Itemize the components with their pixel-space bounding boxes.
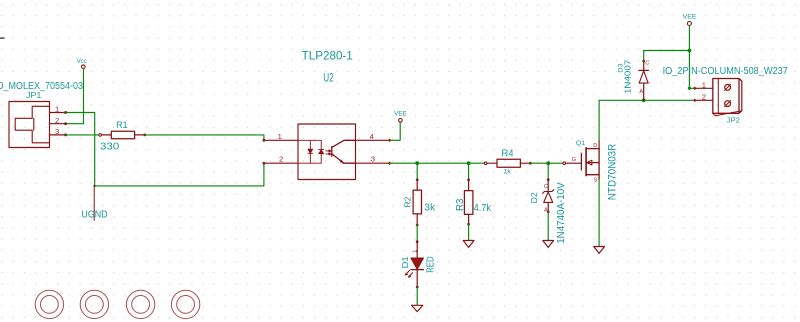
resistor R1: [99, 131, 146, 139]
mounting hole MH2: [80, 290, 108, 318]
ground below Q1: [594, 247, 605, 254]
svg-text:Vcc: Vcc: [77, 59, 87, 65]
optocoupler U2: [264, 124, 390, 180]
mounting hole MH1: [35, 290, 63, 318]
svg-text:3: 3: [371, 155, 375, 164]
svg-text:R2: R2: [402, 196, 412, 207]
junction UGND attach: [93, 185, 95, 187]
junction R3: [467, 161, 471, 165]
wire to D2: [547, 163, 549, 179]
svg-text:2: 2: [55, 116, 59, 125]
wire D1 to ground: [416, 287, 418, 305]
svg-text:D2: D2: [530, 192, 539, 203]
ground below D1: [412, 305, 423, 311]
svg-text:1k: 1k: [503, 169, 511, 176]
wire JP1 pin 3 to R1: [66, 134, 99, 136]
pin 2 line: [264, 162, 298, 164]
junction D2: [546, 161, 550, 165]
wire R1 to U2 pin 1: [145, 135, 264, 140]
svg-text:TLP280-1: TLP280-1: [302, 50, 353, 63]
svg-text:1: 1: [55, 105, 59, 114]
svg-text:3: 3: [55, 127, 59, 136]
wire U2 pin 4 to VEE: [390, 123, 401, 141]
wire main net U2 pin 3 to R4: [390, 162, 485, 164]
pin 4 line: [356, 139, 390, 141]
svg-text:C: C: [645, 61, 649, 67]
resistor R2: [413, 178, 421, 226]
light arrows: [326, 150, 330, 152]
svg-text:C: C: [544, 184, 548, 190]
wire to R3: [468, 163, 470, 180]
pin end dots U2: [262, 139, 265, 165]
svg-text:UGND: UGND: [81, 209, 107, 220]
svg-text:O_MOLEX_70554-03: O_MOLEX_70554-03: [0, 81, 84, 92]
mounting hole MH4: [171, 290, 199, 318]
connector JP2: [695, 79, 742, 116]
svg-text:2: 2: [702, 92, 706, 101]
junction D3 anode: [642, 98, 646, 102]
wire Vcc stem to JP1 pin 2: [66, 68, 84, 123]
wire R3 to ground: [468, 224, 470, 240]
ground below R3: [463, 241, 474, 248]
svg-text:JP1: JP1: [26, 90, 42, 100]
svg-text:U2: U2: [323, 71, 334, 85]
phototransistor: [332, 140, 356, 163]
pin end diamonds U2: [388, 139, 392, 166]
svg-text:330: 330: [100, 141, 119, 152]
svg-text:JP2: JP2: [727, 115, 740, 124]
svg-text:1N4740A-10V: 1N4740A-10V: [556, 182, 567, 244]
junction R2: [415, 161, 419, 165]
emission arrows: [405, 270, 413, 278]
svg-text:D1: D1: [401, 256, 410, 269]
zener diode D2: [543, 178, 554, 213]
wire Q1 drain to JP2 pin 2: [599, 100, 695, 140]
wire Q1 source to ground: [598, 179, 600, 246]
junction VEE to D3 branch: [688, 49, 692, 53]
svg-text:1N4007: 1N4007: [623, 60, 633, 94]
wire to R2: [416, 163, 418, 180]
svg-text:R1: R1: [116, 120, 128, 130]
svg-text:Q1: Q1: [576, 140, 586, 147]
svg-text:VEE: VEE: [683, 14, 697, 21]
pin 1 line: [264, 139, 298, 141]
diode D3: [639, 60, 649, 101]
svg-text:A: A: [639, 89, 643, 95]
net label line UGND: [93, 186, 95, 221]
svg-text:3k: 3k: [424, 202, 435, 213]
svg-text:A: A: [544, 208, 548, 214]
svg-text:2: 2: [279, 155, 283, 164]
LED D1: [405, 240, 424, 288]
svg-text:S: S: [594, 178, 598, 184]
stray mark left edge: [0, 37, 5, 39]
svg-text:1: 1: [278, 132, 282, 141]
mounting hole MH3: [126, 290, 154, 318]
wire JP1 pin 1 to UGND net and U2 pin 2: [66, 113, 264, 186]
svg-text:G: G: [572, 157, 576, 163]
wire D2 to ground: [547, 212, 549, 241]
svg-text:1: 1: [413, 250, 419, 253]
svg-text:4.7k: 4.7k: [474, 203, 492, 214]
svg-text:RED: RED: [425, 256, 436, 272]
junction JP2 pin1: [688, 87, 691, 90]
power symbol Vcc: [82, 65, 86, 69]
svg-text:IO_2PIN-COLUMN-508_W237: IO_2PIN-COLUMN-508_W237: [663, 66, 788, 77]
pin end dots JP1: [64, 111, 67, 136]
resistor R3: [464, 178, 473, 225]
LED B (points up): [319, 150, 324, 154]
svg-text:4: 4: [370, 132, 374, 141]
ground below D2: [543, 241, 554, 248]
svg-text:R3: R3: [455, 198, 466, 211]
internal LED pair rails: [298, 140, 331, 163]
wire R4 to Q1 gate: [530, 162, 563, 164]
svg-text:1: 1: [702, 80, 706, 89]
svg-text:R4: R4: [501, 149, 513, 160]
svg-text:D: D: [593, 143, 597, 149]
wire VEE to D3 and JP2 pin 1: [644, 26, 695, 89]
wire R2 to D1: [416, 225, 418, 242]
pin 3 line: [356, 162, 390, 164]
svg-text:VEE: VEE: [394, 110, 407, 117]
LED A (points down): [308, 149, 313, 153]
power symbol VEE (middle): [399, 119, 403, 123]
power symbol VEE (right): [687, 22, 691, 26]
pin end diamonds JP2: [693, 87, 697, 103]
svg-text:NTD70N03R: NTD70N03R: [606, 144, 618, 201]
connector JP1: [9, 102, 66, 148]
resistor R4: [484, 159, 531, 167]
mosfet Q1: [563, 140, 599, 179]
